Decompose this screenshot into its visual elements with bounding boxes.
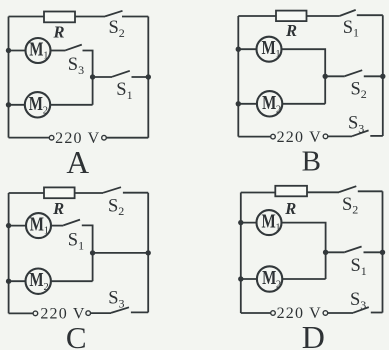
wire: B right edge vertical <box>382 15 384 136</box>
wire: D right edge vertical <box>382 191 384 312</box>
wire: C top wire middle segment <box>75 192 103 194</box>
wire: B top wire right segment <box>357 14 383 16</box>
svg-text:2: 2 <box>276 280 281 291</box>
switch S2 (D) lever <box>339 186 356 192</box>
wire: D M2 to middle line, corner up <box>282 278 325 280</box>
svg-text:M: M <box>29 269 43 291</box>
svg-text:1: 1 <box>43 50 48 61</box>
wire: D middle node to S1 <box>326 251 345 253</box>
wire: A bottom left segment <box>9 137 50 139</box>
switch S1 (A) lever <box>112 71 130 77</box>
junction dot C left/M2 <box>6 279 11 284</box>
svg-text:R: R <box>52 22 64 41</box>
switch S1 (B) lever <box>340 10 356 16</box>
wire: D top wire left segment <box>241 192 275 194</box>
wire: B S2 to right edge <box>364 75 383 77</box>
wire: A middle node to S1 <box>93 76 112 78</box>
wire: C M1 branch left <box>9 225 27 227</box>
svg-text:R: R <box>52 199 64 218</box>
wire: A M1 branch left <box>9 50 26 52</box>
wire: D M1 branch left <box>241 222 257 224</box>
svg-text:R: R <box>284 199 296 218</box>
motor M1 (A) <box>26 38 51 63</box>
wire: C S1 to middle line, corner down <box>82 225 93 253</box>
junction dot D left/M1 <box>238 220 243 225</box>
wire: C M2 to middle line <box>51 280 93 282</box>
svg-text:A: A <box>66 145 89 180</box>
switch S3 (D) lever <box>353 307 369 313</box>
wire: C right edge vertical <box>147 193 149 313</box>
wire: D top wire right segment <box>358 190 383 192</box>
wire: A M1 to S3 <box>51 50 66 52</box>
svg-text:220 V: 220 V <box>277 129 322 146</box>
junction dot C middle node <box>90 250 95 255</box>
svg-text:1: 1 <box>44 226 49 237</box>
wire: C left edge vertical <box>8 193 10 313</box>
junction dot D middle node <box>323 250 328 255</box>
svg-text:M: M <box>29 93 43 115</box>
junction dot B left/M1 <box>236 47 241 52</box>
terminal circle C left <box>33 311 38 316</box>
terminal circle A left <box>49 135 54 140</box>
wire: C M2 branch left <box>9 280 26 282</box>
svg-text:M: M <box>262 267 276 289</box>
wire: D top wire middle segment <box>307 191 339 193</box>
wire: C middle vertical lower <box>92 253 94 281</box>
wire: D M1 to middle line, corner down <box>282 223 326 253</box>
switch S3 (A) lever <box>66 45 82 51</box>
motor M2 (B) <box>257 91 282 116</box>
wire: A top wire left segment <box>9 16 45 18</box>
junction dot C left/M1 <box>6 223 11 228</box>
svg-text:C: C <box>66 320 87 350</box>
wire: C bottom to S3 <box>91 312 112 314</box>
svg-text:M: M <box>29 39 43 61</box>
switch S3 (B) lever <box>352 130 369 136</box>
svg-text:D: D <box>302 319 325 350</box>
switch S2 (C) lever <box>103 187 121 193</box>
motor M1 (B) <box>257 37 282 62</box>
junction dot A left/M1 <box>6 48 11 53</box>
svg-text:1: 1 <box>275 49 280 60</box>
wire: D M2 branch left <box>241 278 257 280</box>
motor M1 (C) <box>26 213 51 238</box>
wire: C S3 to bottom right corner, corner up <box>131 311 148 313</box>
svg-text:M: M <box>262 211 276 233</box>
terminal circle C right <box>86 311 91 316</box>
wire: A right edge vertical <box>147 17 149 138</box>
wire: B left edge vertical <box>237 16 239 137</box>
motor M2 (C) <box>26 269 51 294</box>
svg-text:2: 2 <box>43 105 48 116</box>
junction dot B left/M2 <box>236 101 241 106</box>
switch S2 (A) lever <box>105 11 123 17</box>
wire: A M2 branch left <box>9 104 25 106</box>
wire: B M2 branch left <box>238 103 257 105</box>
wire: A top wire middle segment <box>75 16 105 18</box>
motor M1 (D) <box>257 210 282 235</box>
motor M2 (D) <box>257 266 282 291</box>
svg-text:M: M <box>262 37 276 59</box>
wire: B M2 to middle line, corner up <box>282 103 325 105</box>
terminal circle A right <box>102 135 107 140</box>
resistor R (C) <box>44 187 75 198</box>
switch S1 (D) lever <box>345 247 362 253</box>
junction dot B right edge <box>380 74 385 79</box>
switch S1 (C) lever <box>63 220 80 226</box>
motor M2 (A) <box>25 92 50 117</box>
resistor R (D) <box>275 186 307 197</box>
terminal circle B right <box>323 134 328 139</box>
wire: B bottom to S3 <box>328 135 352 137</box>
wire: D bottom to S3 <box>328 312 353 314</box>
wire: B bottom left segment <box>238 136 270 138</box>
wire: D middle vertical lower <box>325 252 327 279</box>
wire: C bottom left segment <box>9 312 34 314</box>
wire: D S1 to right edge <box>364 251 383 253</box>
junction dot D right edge <box>380 250 385 255</box>
wire: A M2 to middle line <box>50 104 92 106</box>
resistor R (B) <box>276 11 307 22</box>
junction dot A right edge <box>146 74 151 79</box>
terminal circle D left <box>271 311 276 316</box>
resistor R (A) <box>44 12 75 23</box>
svg-text:2: 2 <box>44 282 49 293</box>
wire: C M1 to S1 <box>51 225 63 227</box>
switch S2 (B) lever <box>345 70 362 76</box>
svg-text:M: M <box>262 92 276 114</box>
wire: A bottom right segment <box>106 137 148 139</box>
wire: C top wire left segment <box>9 192 44 194</box>
wire: B top wire middle segment <box>307 15 340 17</box>
wire: A middle vertical lower <box>92 77 94 105</box>
wire: B middle node to S2 <box>325 75 345 77</box>
wire: A top wire right segment <box>122 16 148 18</box>
switch S3 (C) lever <box>111 307 129 313</box>
wire: C top wire right segment <box>123 192 148 194</box>
wire: A left edge vertical <box>8 17 10 138</box>
wire: B middle vertical lower <box>324 76 326 104</box>
svg-text:B: B <box>302 146 321 178</box>
junction dot B middle node <box>323 74 328 79</box>
terminal circle B left <box>271 134 276 139</box>
wire: B top wire left segment <box>238 15 276 17</box>
junction dot D left/M2 <box>238 276 243 281</box>
wire: D left edge vertical <box>240 193 242 314</box>
wire: A S3 to middle node, corner down <box>83 51 93 78</box>
wire: B S3 to bottom right corner, corner up <box>370 135 383 137</box>
svg-text:M: M <box>30 214 44 236</box>
junction dot C right edge <box>146 250 151 255</box>
svg-text:R: R <box>285 21 297 40</box>
wire: D S3 to bottom right corner, corner up <box>371 312 383 314</box>
terminal circle D right <box>323 311 328 316</box>
wire: B M1 to middle line, corner down <box>282 49 326 76</box>
junction dot A middle node <box>90 74 95 79</box>
wire: A S1 to right edge <box>132 76 149 78</box>
wire: B M1 branch left <box>238 48 256 50</box>
svg-text:1: 1 <box>275 223 280 234</box>
svg-text:2: 2 <box>276 104 281 115</box>
wire: D bottom left segment <box>241 312 271 314</box>
wire: C middle node to right edge <box>93 252 149 254</box>
junction dot A left/M2 <box>6 102 11 107</box>
